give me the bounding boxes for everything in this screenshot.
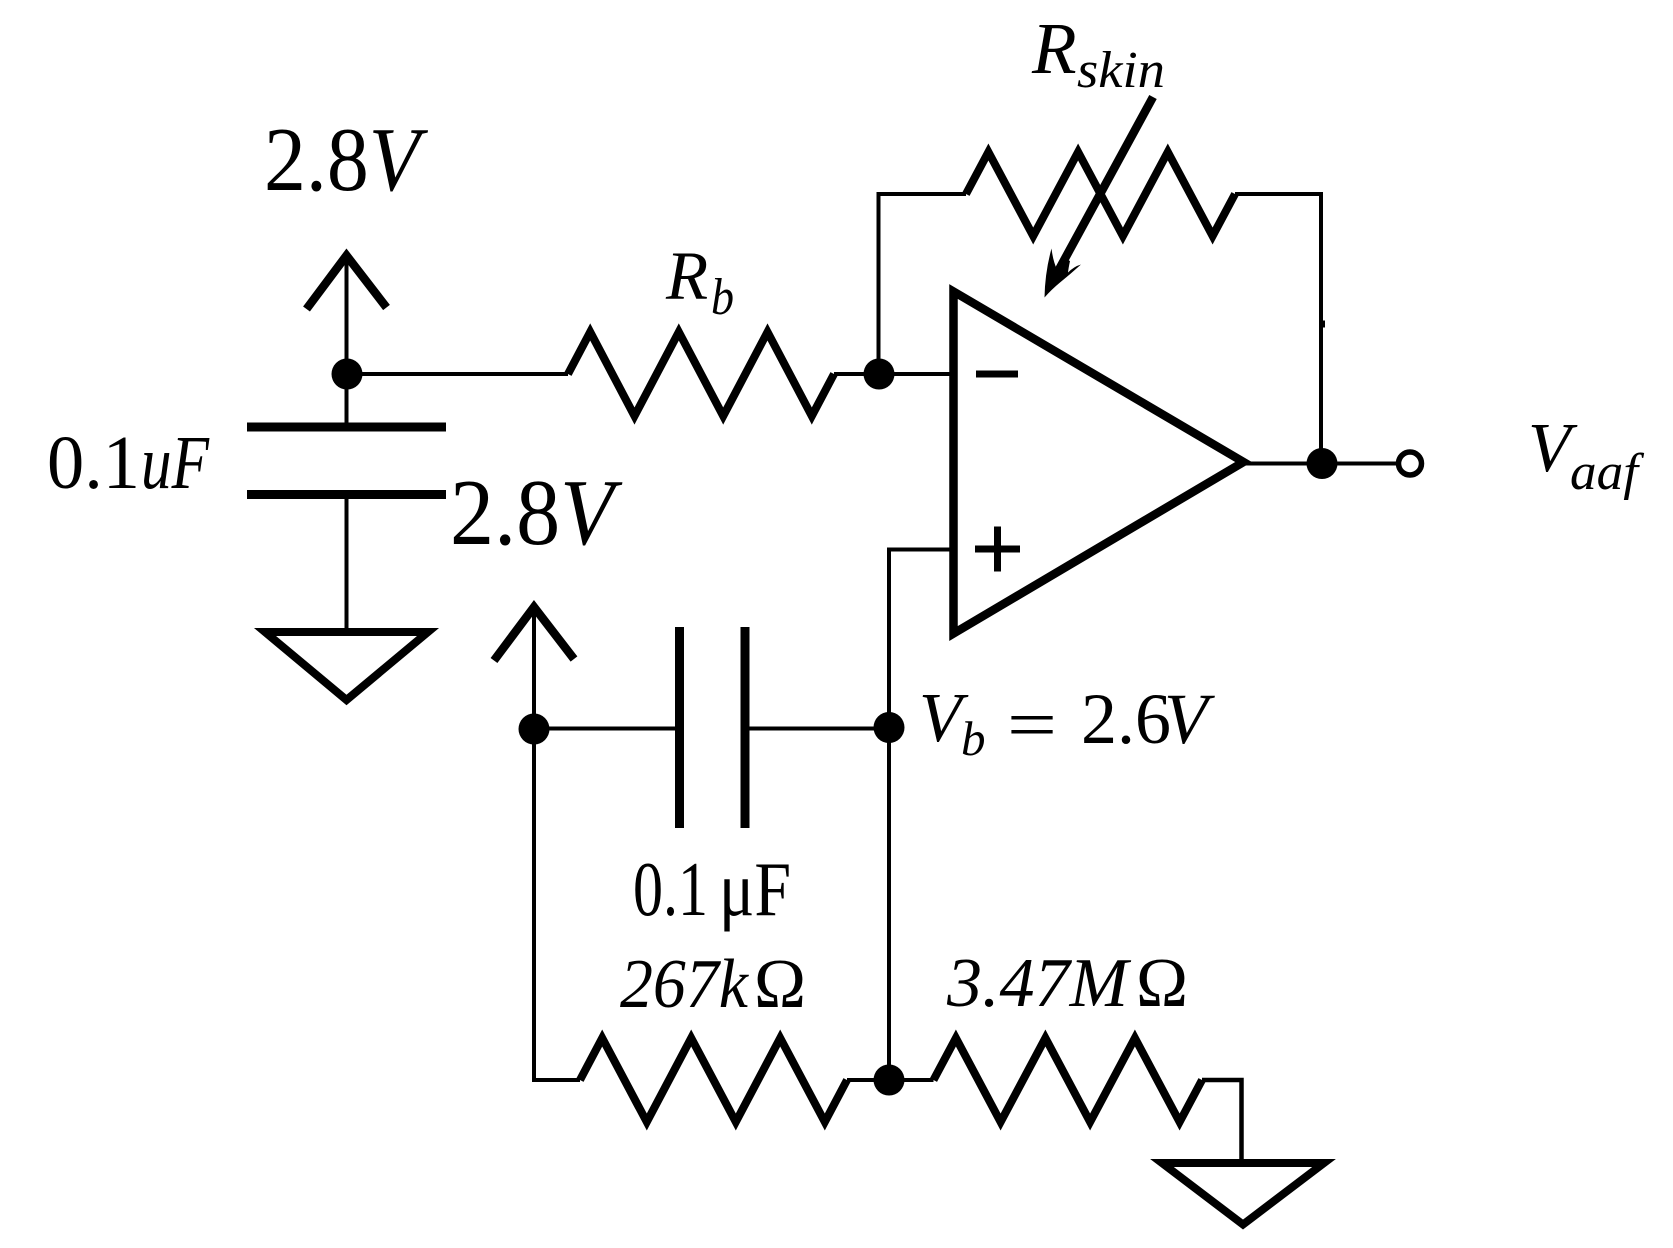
wire: Rskin right side, corner down to output node: [1235, 194, 1321, 464]
wire: Rb to node B: [834, 372, 879, 376]
terminal Vaaf (open circle): [1399, 452, 1422, 475]
label 2.8V (top-left supply): [264, 109, 429, 210]
op-amp U1: [954, 292, 1244, 634]
label 2.8V (at C1 bottom plate): [450, 461, 623, 565]
node C output junction: [1307, 448, 1338, 479]
resistor Rskin (variable): [966, 152, 1235, 236]
wire: node A down to C1 top plate: [345, 374, 349, 427]
svg-text:Ω: Ω: [1136, 945, 1188, 1022]
wire: node Vb down to node E: [887, 728, 891, 1081]
svg-text:μF: μF: [719, 846, 791, 932]
node B junction (inverting input): [864, 359, 895, 390]
resistor R2 3.47M: [934, 1038, 1203, 1122]
wire: node B to op-amp inverting input: [879, 372, 953, 376]
svg-text:b: b: [711, 269, 734, 326]
wire: C1 bottom plate to ground: [345, 495, 349, 633]
svg-text:2.6: 2.6: [1081, 679, 1171, 759]
wire stub on feedback vertical (small nub): [1319, 321, 1325, 328]
svg-text:R: R: [665, 238, 708, 314]
svg-text:267k: 267k: [620, 946, 750, 1023]
label Vb = 2.6V: [919, 679, 1215, 766]
wire: op-amp output to terminal: [1246, 462, 1397, 466]
value label 0.1uF (C1): [47, 421, 210, 505]
power supply arrow (middle): [494, 607, 574, 729]
svg-text:3.47M: 3.47M: [946, 945, 1132, 1022]
wire: R1 to node E: [847, 1078, 889, 1082]
svg-text:b: b: [961, 711, 986, 766]
wire: node A to Rb: [347, 372, 568, 376]
wire: node E to R2: [889, 1078, 934, 1082]
svg-text:2.8V: 2.8V: [450, 461, 623, 565]
op-amp inverting pin minus sign: [976, 371, 1018, 378]
svg-text:=: =: [1007, 687, 1057, 764]
node Vb junction: [874, 712, 905, 743]
svg-text:R: R: [1031, 8, 1077, 89]
node D junction (supply / C2 / R 267k): [519, 714, 550, 745]
svg-text:aaf: aaf: [1570, 444, 1645, 501]
capacitor C2 0.1uF: [680, 627, 746, 828]
value label 267kOhm: [620, 946, 806, 1023]
resistor R1 267k: [580, 1038, 847, 1122]
svg-text:skin: skin: [1077, 42, 1165, 99]
op-amp non-inverting pin plus sign: [975, 527, 1020, 572]
value label 3.47MOhm: [946, 945, 1188, 1022]
ground (left): [265, 632, 428, 700]
svg-text:uF: uF: [141, 421, 210, 505]
label Rskin: [1031, 8, 1165, 99]
wire: node D to C2 left plate: [534, 727, 680, 731]
wire: op-amp + input left and down to node Vb: [889, 550, 953, 728]
resistor Rb: [568, 332, 834, 416]
svg-text:0.1: 0.1: [633, 846, 708, 932]
wire: node D down and left corner to R 267k: [534, 729, 580, 1080]
svg-text:V: V: [1164, 679, 1215, 759]
power supply arrow 2.8V (top-left): [307, 256, 387, 375]
node A junction (supply / C1 / Rb): [332, 359, 363, 390]
node E junction (R1 / R2 / Vb): [874, 1065, 905, 1096]
svg-text:Ω: Ω: [754, 946, 806, 1023]
ground (right): [1162, 1163, 1324, 1225]
capacitor C1 0.1uF: [247, 427, 446, 495]
wire: feedback left vertical and top horizontal to Rskin: [879, 194, 967, 374]
value label 0.1uF (C2): [633, 846, 791, 932]
svg-text:0.1: 0.1: [47, 421, 140, 505]
wire: R2 end corner down to ground (right): [1202, 1080, 1242, 1161]
label Vaaf: [1528, 410, 1645, 501]
Rskin wiper arrow: [1045, 97, 1154, 298]
svg-text:2.8V: 2.8V: [264, 109, 429, 210]
label Rb: [665, 238, 734, 326]
wire: C2 right plate to node Vb: [745, 727, 889, 731]
